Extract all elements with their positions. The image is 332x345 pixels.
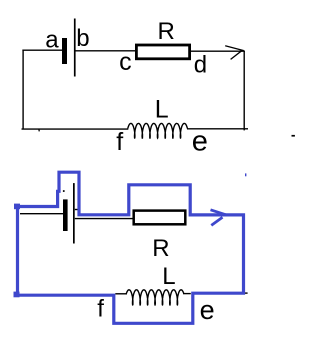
stray tick mark on bottom wire: [38, 130, 40, 132]
wire: resistor d to top-right corner: [191, 50, 245, 52]
resistor R (bottom circuit): [134, 211, 186, 225]
battery B2 negative plate (bottom circuit): [63, 199, 68, 231]
svg-text:f: f: [116, 128, 123, 156]
svg-text:f: f: [97, 295, 104, 322]
svg-text:L: L: [162, 263, 175, 290]
svg-text:e: e: [192, 125, 208, 157]
resistor R (top circuit): [136, 45, 189, 59]
wire: bottom-right horizontal from inductor e to corner: [187, 128, 248, 130]
svg-text:b: b: [76, 25, 89, 52]
battery B1 negative plate (node a): [62, 38, 67, 64]
blue corner blob bottom-left: [14, 292, 20, 298]
svg-text:e: e: [200, 295, 215, 325]
battery B1 positive plate (node b): [74, 19, 76, 77]
stray dot artifact right of top circuit: [292, 135, 295, 137]
svg-text:L: L: [155, 95, 169, 123]
inductor L (top circuit): [128, 123, 188, 138]
wire: bottom-circuit black left horizontal: [20, 213, 63, 215]
blue corner blob top-left: [14, 204, 20, 210]
svg-text:R: R: [158, 18, 175, 45]
current direction arrow (top circuit): [225, 46, 244, 60]
blue circuit trace loop: [18, 172, 244, 323]
wire: battery b to resistor node c: [76, 50, 137, 52]
svg-text:c: c: [119, 48, 132, 76]
wire: bottom-left horizontal from corner to inductor f: [22, 128, 129, 130]
svg-text:a: a: [45, 26, 59, 53]
wire: black horizontal at inductor left (bottom circuit): [115, 293, 127, 295]
wire: top-circuit left vertical: [22, 50, 24, 130]
wire: battery B2 positive stub tick: [75, 209, 78, 211]
wire: black horizontal at inductor right (bottom circuit): [183, 293, 191, 295]
svg-text:d: d: [194, 52, 207, 79]
svg-text:R: R: [152, 235, 169, 262]
wire: bottom-circuit black horizontal battery to resistor: [75, 218, 134, 220]
wire: top-circuit right vertical: [243, 51, 245, 131]
black tick at blue corner junction (bottom right): [245, 292, 248, 294]
inductor L (bottom circuit): [126, 290, 184, 305]
wire: top-circuit top-left horizontal from corner to battery plate a: [22, 49, 62, 51]
battery B2 positive plate (bottom circuit): [73, 183, 75, 243]
stray blue dash artifact (top right of bottom circuit): [245, 173, 246, 176]
current direction arrow (blue, bottom circuit): [211, 210, 227, 226]
stray dot near battery B2: [63, 190, 65, 192]
